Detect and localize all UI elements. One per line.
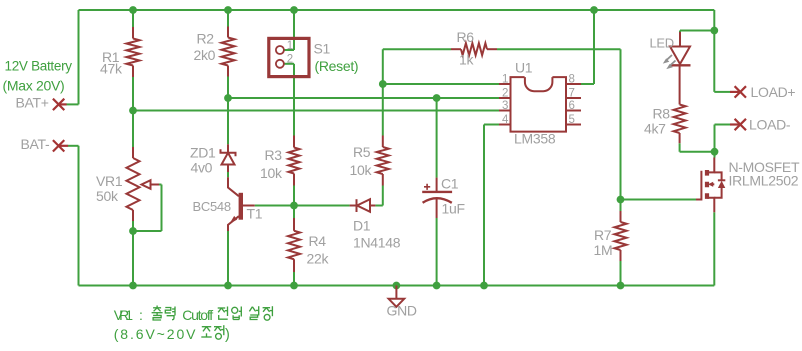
junction (133,231) (129, 227, 137, 235)
svg-text:2k0: 2k0 (194, 47, 216, 63)
wire S1 top drop (293, 10, 295, 50)
wire T1 base bus (255, 205, 350, 207)
pin BAT- (53, 140, 68, 151)
junction (294,10) (290, 6, 298, 14)
svg-text:12V Battery: 12V Battery (5, 59, 73, 74)
wire R2 top drop (227, 10, 229, 27)
hangul ap (압) (232, 307, 242, 320)
svg-text:3: 3 (502, 100, 508, 112)
svg-text:BAT+: BAT+ (16, 95, 49, 111)
wire pin4 (484, 125, 499, 286)
svg-text:1: 1 (287, 40, 293, 52)
wire BAT- down left rail (78, 146, 80, 286)
wire R1 top drop (132, 10, 134, 27)
wire R6 to gate junction (620, 49, 622, 199)
hangul jo (조) (201, 327, 211, 337)
svg-text:4k7: 4k7 (644, 121, 666, 137)
wire pin1 bus (383, 83, 499, 85)
junction (594,10) (590, 6, 598, 14)
svg-text:8: 8 (569, 73, 575, 85)
MOSFET IRLML2502 (696, 158, 725, 213)
wire VR1 wiper return (133, 185, 162, 232)
wire VR1 bottom to rail (132, 221, 134, 286)
zener diode ZD1 (221, 144, 236, 172)
resistor R4 (288, 218, 300, 272)
wire ZD1 to T1 collector (227, 172, 229, 177)
hangul ryeok (력) (165, 307, 175, 320)
transistor T1 BC548 (228, 177, 255, 231)
svg-text:ZD1: ZD1 (190, 145, 216, 161)
junction (294,285.5) (290, 282, 298, 290)
resistor R2 (222, 27, 235, 77)
hangul jeong2 (정) (214, 325, 224, 339)
svg-text:R5: R5 (353, 144, 371, 160)
junction (294,205.5) (290, 202, 298, 210)
wire R5 top to R6 corner (382, 49, 384, 135)
wire LED top (679, 31, 681, 33)
LED (670, 32, 691, 66)
svg-text:1M: 1M (594, 242, 613, 258)
resistor R5 (377, 136, 389, 186)
hangul chul (출) (152, 306, 163, 321)
svg-text:IRLML2502: IRLML2502 (729, 173, 799, 189)
svg-text:R7: R7 (594, 227, 612, 243)
wire drain (714, 152, 716, 158)
junction (620.5,285.5) (617, 282, 625, 290)
svg-text:4: 4 (502, 114, 509, 126)
op-amp U1 LM358 box (499, 77, 581, 132)
junction (396.4,285.5) (393, 282, 401, 290)
svg-text:6: 6 (569, 100, 575, 112)
svg-text:(Reset): (Reset) (315, 58, 359, 74)
svg-text:50k: 50k (96, 188, 119, 204)
wire top rail (79, 9, 715, 11)
svg-text:1N4148: 1N4148 (353, 235, 401, 251)
wire LOAD+ stub (714, 91, 730, 93)
hangul jeon (전) (218, 307, 228, 320)
junction (484,285.5) (480, 282, 488, 290)
ground symbol (389, 286, 405, 307)
wire left rail (BAT+ to top) (78, 10, 80, 104)
wire R4 top (293, 206, 295, 219)
junction (228,285.5) (224, 282, 232, 290)
svg-text:2: 2 (502, 87, 508, 99)
junction (714.3,30.5) (710, 27, 718, 35)
pin BAT+ (53, 99, 67, 110)
svg-text:1: 1 (502, 73, 508, 85)
svg-text:): ) (225, 327, 230, 343)
wire C1 bottom (436, 218, 438, 286)
junction (228,10) (224, 6, 232, 14)
wire LOAD- to drain junction (714, 125, 716, 152)
svg-text:VR1: VR1 (114, 307, 134, 323)
svg-text:D1: D1 (353, 218, 371, 234)
wire R1 bottom (132, 77, 134, 111)
junction (714.5,151.7) (711, 148, 719, 156)
wire BAT- stub (68, 145, 79, 147)
wire R6 left (383, 48, 451, 50)
junction (436.6,98) (433, 94, 441, 102)
svg-text:S1: S1 (314, 41, 331, 57)
wire right riser (MOSFET source to bottom rail) (713, 212, 715, 285)
svg-text:Cutoff: Cutoff (182, 307, 213, 323)
wire D1 to R5 (375, 186, 382, 206)
svg-text:2: 2 (287, 54, 293, 66)
svg-text:7: 7 (569, 87, 575, 99)
svg-text:10k: 10k (350, 162, 373, 178)
pin LOAD+ (730, 86, 746, 97)
svg-text:BC548: BC548 (193, 199, 231, 214)
svg-text:BAT-: BAT- (21, 136, 51, 152)
wire LOAD- stub (715, 124, 731, 126)
resistor R1 (127, 27, 140, 77)
wire T1 emitter to rail (227, 231, 229, 286)
pin LOAD- (730, 119, 746, 130)
svg-text:LM358: LM358 (514, 131, 556, 147)
svg-text:5: 5 (569, 114, 575, 126)
junction (436.6,285.5) (433, 282, 441, 290)
svg-text:R4: R4 (309, 233, 327, 249)
wire R2 bottom (227, 77, 229, 99)
svg-text:T1: T1 (247, 206, 263, 222)
svg-text:47k: 47k (100, 61, 123, 77)
svg-text:R3: R3 (265, 147, 283, 163)
wire VR1 top (132, 111, 134, 148)
hangul seol (설) (249, 306, 258, 319)
svg-text:VR1: VR1 (96, 173, 123, 189)
svg-text:U1: U1 (515, 60, 533, 76)
wire S1 pin1 link (284, 49, 294, 51)
svg-text:10k: 10k (260, 165, 283, 181)
wire S1 pin2 link (284, 63, 294, 65)
wire BAT+ stub (67, 103, 79, 105)
svg-text:22k: 22k (307, 251, 330, 267)
resistor R3 (289, 136, 300, 186)
junction (382.8,84) (379, 80, 387, 88)
svg-text:1uF: 1uF (442, 201, 465, 217)
wire pin2 bus (228, 97, 499, 99)
switch S1 (Reset) (269, 38, 309, 76)
junction (133,110.5) (129, 107, 137, 115)
svg-text:LED: LED (650, 36, 674, 51)
wire LED branch (680, 30, 714, 32)
wire R7 top (620, 200, 622, 212)
svg-text:GND: GND (387, 303, 417, 319)
wire bottom rail (79, 285, 715, 287)
resistor R7 (615, 211, 627, 261)
svg-text:4v0: 4v0 (191, 160, 213, 176)
diode D1 1N4148 (350, 199, 376, 212)
wire pin8 drop (581, 10, 594, 84)
wire pin3 bus (133, 110, 499, 112)
svg-text:LOAD+: LOAD+ (751, 84, 796, 100)
wire R4 bottom (293, 272, 295, 286)
hangul jeong (정) (263, 306, 273, 320)
resistor R6 (451, 43, 497, 55)
svg-text:(Max 20V): (Max 20V) (3, 78, 65, 94)
capacitor C1 (422, 178, 452, 218)
junction (133,10) (129, 6, 137, 14)
wire S1 to R3 (293, 64, 295, 136)
wire gate (621, 199, 697, 201)
wire right column top (713, 10, 715, 92)
wire R7 bottom (620, 261, 622, 286)
wire R8 bottom (680, 143, 715, 152)
svg-text:R8: R8 (653, 106, 671, 122)
resistor R8 (674, 66, 686, 143)
svg-text:1k: 1k (459, 52, 474, 68)
wire ZD1 top (227, 98, 229, 144)
wire R6 right (497, 48, 621, 50)
potentiometer VR1 (127, 147, 160, 221)
svg-text::: : (139, 307, 143, 323)
svg-text:R2: R2 (197, 31, 215, 47)
svg-text:C1: C1 (441, 176, 459, 192)
svg-text:R6: R6 (457, 29, 475, 45)
wire C1 top (436, 98, 438, 178)
junction (620.5,199.5) (617, 196, 625, 204)
junction (133,285.5) (129, 282, 137, 290)
junction (228,98) (224, 94, 232, 102)
svg-text:LOAD-: LOAD- (749, 116, 791, 132)
LED emission arrows (663, 55, 676, 69)
wire R3 bottom (293, 186, 295, 206)
